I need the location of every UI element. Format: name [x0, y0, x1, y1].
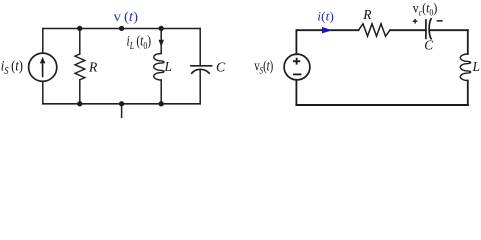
wire top horizontal [43, 28, 200, 30]
wire right branch lower [467, 81, 469, 106]
voltage source minus sign [293, 74, 301, 76]
node dot top resistor [77, 26, 82, 31]
capacitor C top plate [191, 65, 212, 67]
svg-text:vc(t0): vc(t0) [413, 1, 438, 18]
wire C to right corner [430, 29, 468, 31]
svg-text:C: C [216, 60, 226, 75]
label iL(t0) [127, 32, 152, 51]
resistor R zigzag horizontal [359, 24, 391, 37]
node dot bottom resistor [77, 101, 82, 106]
wire top left segment [296, 29, 358, 31]
svg-text:L: L [472, 59, 480, 74]
wire capacitor branch lower [199, 70, 201, 104]
inductor L coil right [460, 54, 470, 81]
current source arrow [40, 57, 45, 77]
svg-text:R: R [362, 7, 372, 22]
junction node dots [77, 26, 164, 107]
svg-text:R: R [88, 60, 98, 75]
inductor L coil [154, 54, 164, 81]
node dot bottom inductor [159, 101, 164, 106]
wire bottom horizontal [296, 104, 467, 106]
current arrow i(t) blue [322, 27, 332, 33]
label i(t) blue [317, 9, 334, 24]
wire right branch upper [467, 30, 469, 54]
wire resistor branch lower [79, 80, 81, 104]
resistor R zigzag [75, 54, 85, 80]
wire between R and C [390, 29, 426, 31]
label iS(t) [1, 57, 23, 77]
voltage source vS circle [284, 54, 310, 80]
capacitor minus sign [437, 20, 443, 22]
svg-text:v (t): v (t) [114, 10, 139, 25]
capacitor C curved plate [429, 19, 431, 39]
wire left branch lower [42, 81, 44, 104]
wire left branch upper [295, 30, 297, 54]
node dot top inductor [159, 26, 164, 31]
capacitor plus sign [413, 19, 418, 24]
wire capacitor branch upper [199, 29, 201, 66]
inductor current arrow head [159, 40, 164, 47]
wire resistor branch upper [79, 29, 81, 55]
wire left branch upper [42, 29, 44, 54]
label vS(t) [254, 58, 273, 76]
node dot bottom middle [119, 101, 124, 106]
label vc(t0) [413, 1, 438, 18]
wire inductor branch upper [160, 29, 162, 54]
node label v(t) [114, 10, 139, 25]
svg-text:L: L [164, 59, 172, 74]
node dot top middle v(t) [119, 26, 124, 31]
svg-text:C: C [424, 37, 433, 52]
current source iS circle [29, 53, 57, 81]
wire left branch lower [295, 80, 297, 105]
wire inductor branch lower [160, 80, 162, 104]
capacitor C curved plate [192, 69, 209, 73]
svg-text:i(t): i(t) [317, 9, 334, 24]
capacitor C straight plate [425, 20, 427, 38]
svg-text:vS(t): vS(t) [254, 58, 273, 76]
wire reference stub below node [121, 104, 123, 117]
wire bottom horizontal [43, 103, 200, 105]
voltage source plus sign [293, 58, 300, 65]
